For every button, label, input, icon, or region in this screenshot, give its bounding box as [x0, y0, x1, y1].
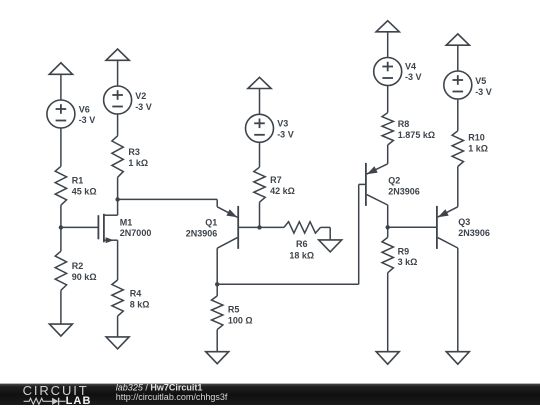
svg-text:1 kΩ: 1 kΩ — [128, 158, 148, 168]
svg-text:100 Ω: 100 Ω — [228, 315, 253, 325]
svg-text:2N7000: 2N7000 — [120, 228, 152, 238]
svg-text:45 kΩ: 45 kΩ — [72, 186, 97, 196]
svg-text:R6: R6 — [296, 239, 308, 249]
svg-text:V4: V4 — [405, 62, 416, 72]
svg-text:90 kΩ: 90 kΩ — [72, 272, 97, 282]
svg-text:lab325 / Hw7Circuit1: lab325 / Hw7Circuit1 — [116, 382, 203, 392]
svg-text:R8: R8 — [398, 119, 410, 129]
svg-text:V3: V3 — [277, 118, 288, 128]
svg-text:2N3906: 2N3906 — [186, 229, 218, 239]
svg-text:-3 V: -3 V — [277, 130, 294, 140]
svg-text:R9: R9 — [398, 246, 410, 256]
svg-text:2N3906: 2N3906 — [458, 228, 490, 238]
svg-text:42 kΩ: 42 kΩ — [270, 186, 295, 196]
svg-text:Q2: Q2 — [388, 176, 400, 186]
svg-text:-3 V: -3 V — [405, 72, 422, 82]
svg-text:3 kΩ: 3 kΩ — [398, 257, 418, 267]
svg-text:http://circuitlab.com/chhgs3f: http://circuitlab.com/chhgs3f — [116, 392, 228, 402]
svg-text:LAB: LAB — [66, 395, 92, 405]
svg-text:Q3: Q3 — [458, 217, 470, 227]
svg-text:Q1: Q1 — [205, 218, 217, 228]
svg-text:R4: R4 — [130, 289, 142, 299]
svg-text:R5: R5 — [228, 304, 240, 314]
svg-text:1.875 kΩ: 1.875 kΩ — [398, 130, 435, 140]
svg-text:R10: R10 — [468, 133, 485, 143]
svg-text:8 kΩ: 8 kΩ — [130, 300, 150, 310]
svg-text:V5: V5 — [475, 76, 486, 86]
svg-text:R3: R3 — [128, 147, 140, 157]
svg-text:R7: R7 — [270, 175, 282, 185]
svg-text:1 kΩ: 1 kΩ — [468, 144, 488, 154]
svg-text:R1: R1 — [72, 175, 84, 185]
svg-text:-3 V: -3 V — [79, 115, 96, 125]
svg-text:-3 V: -3 V — [475, 87, 492, 97]
svg-text:18 kΩ: 18 kΩ — [289, 251, 314, 261]
svg-text:M1: M1 — [120, 217, 133, 227]
svg-text:R2: R2 — [72, 261, 84, 271]
svg-text:V6: V6 — [79, 104, 90, 114]
svg-text:V2: V2 — [135, 91, 146, 101]
svg-text:2N3906: 2N3906 — [388, 187, 420, 197]
svg-text:-3 V: -3 V — [135, 102, 152, 112]
